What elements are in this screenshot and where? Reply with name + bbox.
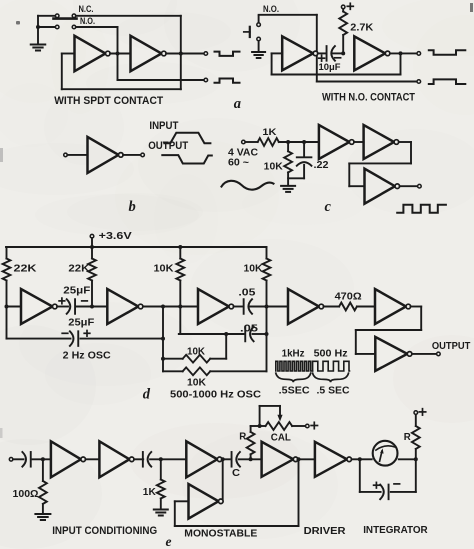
svg-text:2.7K: 2.7K [350, 23, 374, 34]
svg-text:DRIVER: DRIVER [304, 525, 346, 537]
svg-text:INPUT: INPUT [149, 120, 178, 132]
svg-text:OUTPUT: OUTPUT [432, 340, 471, 352]
svg-text:N.O.: N.O. [80, 16, 95, 27]
svg-text:10μF: 10μF [319, 62, 341, 73]
svg-text:N.O.: N.O. [263, 4, 279, 15]
svg-text:2 Hz OSC: 2 Hz OSC [63, 350, 111, 362]
svg-text:INPUT CONDITIONING: INPUT CONDITIONING [52, 525, 157, 537]
svg-text:e: e [166, 534, 172, 549]
svg-text:10K: 10K [187, 347, 206, 358]
svg-text:500-1000 Hz OSC: 500-1000 Hz OSC [170, 389, 261, 401]
svg-text:.5 SEC: .5 SEC [317, 384, 350, 396]
svg-text:25μF: 25μF [68, 317, 94, 328]
svg-text:WITH N.O. CONTACT: WITH N.O. CONTACT [322, 91, 415, 103]
svg-text:c: c [325, 199, 332, 215]
svg-text:100Ω: 100Ω [13, 489, 39, 500]
svg-text:R: R [404, 431, 411, 443]
svg-text:10K: 10K [244, 263, 264, 274]
svg-text:CAL: CAL [271, 432, 292, 444]
svg-text:a: a [234, 96, 241, 112]
svg-text:+3.6V: +3.6V [99, 230, 132, 242]
svg-text:C: C [232, 467, 240, 479]
svg-text:25μF: 25μF [63, 285, 90, 296]
svg-text:WITH SPDT CONTACT: WITH SPDT CONTACT [54, 95, 163, 107]
svg-text:22K: 22K [68, 263, 90, 274]
svg-text:MONOSTABLE: MONOSTABLE [184, 528, 257, 540]
svg-text:1K: 1K [262, 127, 277, 137]
svg-text:60 ~: 60 ~ [228, 157, 249, 168]
svg-text:.05: .05 [240, 323, 259, 334]
svg-text:1kHz: 1kHz [282, 349, 305, 360]
svg-text:500 Hz: 500 Hz [314, 349, 348, 360]
svg-text:1K: 1K [143, 487, 157, 498]
svg-text:R: R [239, 431, 246, 443]
svg-text:10K: 10K [264, 161, 284, 172]
svg-text:.5SEC: .5SEC [279, 384, 310, 396]
svg-text:.22: .22 [314, 160, 329, 171]
svg-text:b: b [129, 199, 136, 215]
svg-text:OUTPUT: OUTPUT [148, 140, 188, 152]
svg-text:470Ω: 470Ω [335, 292, 362, 303]
svg-text:d: d [143, 386, 151, 402]
svg-text:N.C.: N.C. [79, 4, 94, 15]
svg-text:10K: 10K [154, 263, 175, 274]
svg-text:.05: .05 [238, 288, 256, 299]
svg-text:10K: 10K [187, 378, 207, 389]
svg-text:INTEGRATOR: INTEGRATOR [363, 524, 428, 536]
svg-text:22K: 22K [14, 263, 38, 274]
